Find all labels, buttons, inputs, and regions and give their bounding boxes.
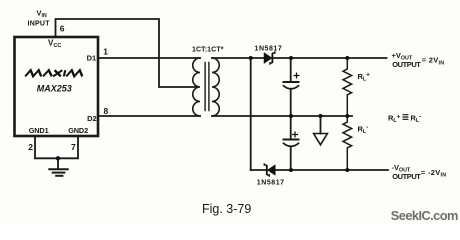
svg-text:MAX253: MAX253 xyxy=(37,83,72,93)
svg-text:D1: D1 xyxy=(87,54,97,63)
svg-text:D2: D2 xyxy=(87,114,97,123)
svg-text:2: 2 xyxy=(28,142,33,152)
svg-text:GND2: GND2 xyxy=(68,126,88,135)
svg-text:6: 6 xyxy=(60,24,65,34)
svg-text:SeekIC.com: SeekIC.com xyxy=(391,208,458,223)
svg-text:1N5817: 1N5817 xyxy=(257,179,285,186)
svg-text:OUTPUT: OUTPUT xyxy=(392,172,421,181)
svg-text:7: 7 xyxy=(71,142,76,152)
svg-text:1CT:1CT*: 1CT:1CT* xyxy=(192,46,224,53)
svg-text:INPUT: INPUT xyxy=(28,20,51,27)
svg-text:Fig. 3-79: Fig. 3-79 xyxy=(202,202,251,216)
svg-text:8: 8 xyxy=(104,106,109,116)
svg-text:GND1: GND1 xyxy=(29,126,49,135)
svg-text:1N5817: 1N5817 xyxy=(255,45,283,52)
svg-text:OUTPUT: OUTPUT xyxy=(392,60,421,69)
svg-text:1: 1 xyxy=(103,47,108,57)
